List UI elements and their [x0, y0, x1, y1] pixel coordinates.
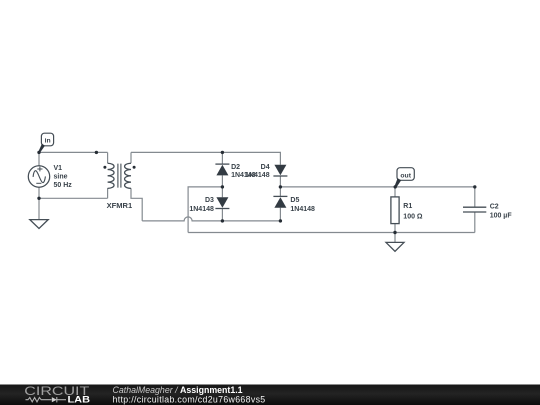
- svg-text:D5: D5: [290, 197, 299, 204]
- svg-text:C2: C2: [490, 204, 499, 211]
- svg-text:sine: sine: [54, 173, 68, 180]
- svg-text:1N4148: 1N4148: [290, 206, 315, 213]
- svg-text:R1: R1: [403, 203, 412, 210]
- svg-text:XFMR1: XFMR1: [107, 203, 133, 210]
- svg-text:out: out: [400, 172, 411, 179]
- svg-text:1N4148: 1N4148: [245, 172, 270, 179]
- svg-text:in: in: [45, 137, 51, 144]
- svg-text:V1: V1: [54, 165, 63, 172]
- svg-text:http://circuitlab.com/cd2u76w6: http://circuitlab.com/cd2u76w668vs5: [113, 394, 266, 404]
- svg-text:LAB: LAB: [68, 395, 91, 405]
- svg-text:1N4148: 1N4148: [189, 206, 214, 213]
- svg-text:D4: D4: [261, 164, 270, 171]
- svg-text:100 Ω: 100 Ω: [403, 214, 423, 221]
- svg-text:D3: D3: [205, 197, 214, 204]
- svg-text:50 Hz: 50 Hz: [54, 182, 73, 189]
- svg-text:100 µF: 100 µF: [490, 212, 513, 219]
- svg-text:D2: D2: [231, 164, 240, 171]
